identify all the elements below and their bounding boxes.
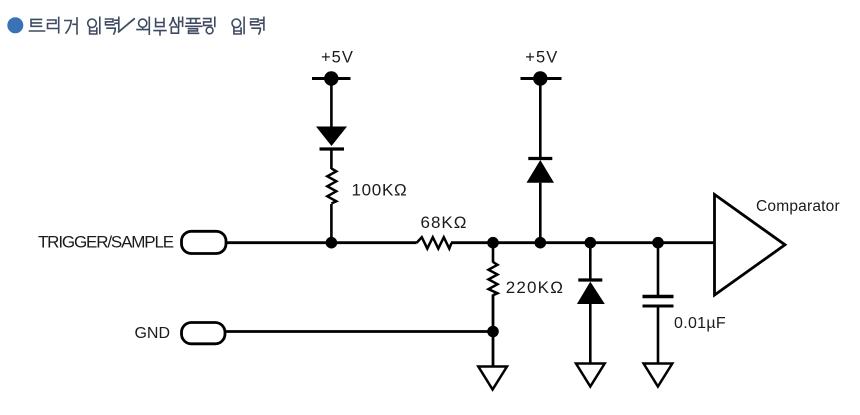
wire D3 to ground symbol [589,304,592,364]
node B junction dot (R2/R3) [487,237,499,249]
capacitor C1 plates [643,297,674,307]
wire node B to R3 [492,243,495,263]
svg-text:100KΩ: 100KΩ [352,181,408,200]
node D junction dot (diode D3 branch) [585,237,597,249]
syllable 트 [30,19,45,31]
syllable 링 [204,17,215,34]
resistor R3 220K (vertical zigzag) [489,262,498,295]
syllable 플 [186,19,202,34]
op-amp U1 comparator triangle [715,195,786,296]
wire D2 to node C [539,183,542,243]
wire node E to capacitor C1 [657,243,660,295]
svg-text:220KΩ: 220KΩ [506,278,564,297]
svg-text:+5V: +5V [525,48,558,66]
fullwidth slash ／ [119,19,134,32]
wire node D to diode D3 [589,243,592,281]
syllable 거 [65,18,77,34]
svg-text:0.01µF: 0.01µF [674,315,726,332]
syllable 샘 [170,17,183,33]
svg-text:68KΩ: 68KΩ [421,213,468,232]
svg-text:GND: GND [134,325,170,342]
wire GND node to ground symbol [492,332,495,367]
syllable 외 [137,17,149,34]
wire supply to diode D2 [539,79,542,161]
GND node junction dot [487,326,499,338]
power rail symbol right +5V [521,71,562,85]
diode D2 (cathode top, anode bottom) [527,159,555,183]
ground symbol 2 [576,364,605,387]
syllable 부 [154,19,166,35]
ground symbol 3 [644,364,673,387]
node E junction dot (capacitor branch) [652,237,664,249]
wire D1 to R1 [330,149,333,169]
ground symbol 1 [478,367,507,390]
syllable 력 (2) [251,17,264,34]
svg-text:+5V: +5V [321,48,354,66]
terminal pill GND [182,323,226,344]
svg-text:Comparator: Comparator [756,198,840,215]
power rail symbol left +5V [312,71,351,85]
title korean text: 트리거 입력／외부샘플링 입력 [30,17,264,35]
node C junction dot (diode D2 branch) [535,237,547,249]
wire C1 to ground symbol [657,307,660,364]
node A junction dot [326,237,338,249]
diode D3 (cathode top, anode bottom) [577,280,605,304]
wire R2 to comparator [451,241,715,244]
title bullet [7,17,23,33]
wire R1 to node A [330,204,333,243]
terminal pill TRIGGER/SAMPLE [182,231,227,253]
syllable 력 (1) [106,17,119,34]
syllable 입 (2) [232,17,244,34]
main wire (TRIGGER node to comparator) [225,241,417,244]
syllable 입 (1) [88,17,100,34]
wire supply to diode D1 [330,79,333,128]
resistor R1 100K (vertical zigzag) [327,169,336,204]
svg-text:TRIGGER/SAMPLE: TRIGGER/SAMPLE [38,233,174,252]
wire GND pill to GND node [225,330,493,333]
syllable 리 [48,17,59,32]
diode D1 (anode top, cathode bottom) [316,127,347,150]
resistor R2 68K (horizontal zigzag) [417,237,452,248]
wire R3 to GND node [492,295,495,332]
